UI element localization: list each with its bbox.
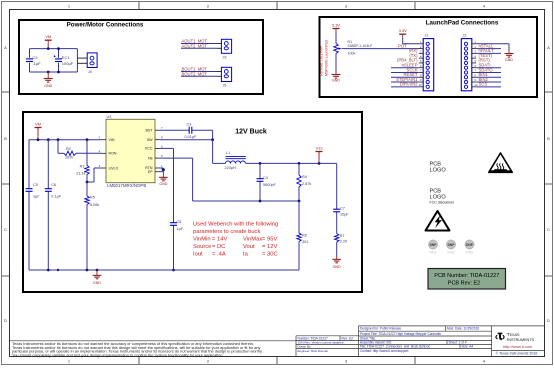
wire R1 to GND — [335, 54, 337, 72]
connector J5 — [221, 67, 231, 87]
op-amp U3 LM5017MRX/NOPB (buck regulator IC) — [106, 115, 155, 188]
svg-text:1µF: 1µF — [33, 194, 40, 198]
wire left vertical C2 branch — [29, 49, 31, 58]
title block outline — [10, 326, 545, 357]
svg-text:3.3V: 3.3V — [332, 22, 341, 27]
svg-text:VIN: VIN — [109, 138, 115, 142]
net AOUT2_MOT — [181, 43, 221, 48]
PCB LOGO text 2 — [430, 189, 447, 201]
svg-text:= .4A: = .4A — [212, 252, 226, 258]
wire J4 pin stubs — [77, 57, 87, 59]
net SDATI (J2 pin 6) — [476, 63, 501, 68]
fiducial FID2 DNP — [446, 240, 455, 255]
svg-text:ta: ta — [243, 252, 249, 258]
resistor R1 potentiometer — [334, 40, 373, 55]
svg-text:C8: C8 — [177, 220, 182, 224]
svg-text:C6: C6 — [51, 183, 56, 187]
svg-text:.1µF: .1µF — [33, 61, 42, 66]
svg-text:SCS: SCS — [479, 82, 488, 87]
svg-text:EXAS: EXAS — [510, 333, 520, 337]
net SCS (J2 pin 10) — [476, 82, 501, 87]
svg-text:UVLO: UVLO — [109, 166, 119, 170]
svg-text:D: D — [4, 318, 7, 323]
capacitor EC1 (polarized) — [54, 55, 74, 66]
capacitor C3 — [185, 123, 198, 139]
svg-text:Used Webench with the followin: Used Webench with the following — [193, 222, 278, 228]
ground GND U3 — [159, 172, 168, 186]
svg-text:FID2: FID2 — [448, 251, 455, 255]
net BIN1 (J2 pin 8) — [476, 72, 501, 77]
svg-text:U3: U3 — [107, 115, 112, 119]
PCB number green box — [428, 269, 506, 290]
capacitor C5 branch — [28, 140, 30, 189]
svg-text:5600pF: 5600pF — [263, 183, 277, 187]
J1 pin stubs and numbers — [419, 40, 424, 87]
svg-text:1µF: 1µF — [177, 227, 184, 231]
svg-text:R2: R2 — [66, 147, 71, 151]
svg-text:R4: R4 — [302, 175, 307, 179]
svg-text:L1: L1 — [226, 151, 230, 155]
power symbol VM buck — [35, 121, 42, 139]
svg-text:Designed for: Public Release: Designed for: Public Release — [360, 327, 401, 331]
svg-text:BOUT2_MOT: BOUT2_MOT — [182, 71, 208, 76]
svg-text:J4: J4 — [88, 70, 92, 74]
power 3.3V (pot branch) — [332, 22, 341, 32]
wire VM rail top — [30, 48, 78, 50]
fiducial FID3 DNP — [465, 240, 474, 255]
svg-text:8.06k: 8.06k — [90, 203, 99, 207]
svg-text:C4: C4 — [263, 176, 268, 180]
resistor R7 — [335, 234, 348, 244]
ground GND power/motor — [44, 72, 53, 88]
svg-text:B: B — [547, 136, 550, 141]
wire VCC to C8 — [160, 147, 174, 149]
connector J1 — [423, 33, 434, 90]
svg-text:VinMin: VinMin — [193, 237, 211, 243]
svg-text:FCC disclaimer: FCC disclaimer — [430, 201, 455, 205]
svg-text:C: C — [4, 227, 7, 232]
net (PB4_BLT) (J1 pin 5) — [397, 58, 418, 63]
wire EC1 branch — [58, 49, 60, 58]
svg-text:= 14V: = 14V — [212, 237, 227, 243]
hot surface warning triangle — [489, 153, 512, 172]
capacitor C6 branch — [47, 140, 49, 189]
svg-text:2.87k: 2.87k — [302, 182, 311, 186]
svg-text:R3: R3 — [80, 164, 85, 168]
wire output to C7/R7 — [336, 163, 338, 209]
svg-text:DNP: DNP — [430, 243, 438, 247]
svg-text:Source: Source — [193, 244, 211, 250]
svg-text:GND: GND — [159, 182, 167, 186]
svg-text:AOUT2_MOT: AOUT2_MOT — [182, 43, 208, 48]
12V Buck section box — [23, 112, 362, 292]
svg-text:V12: V12 — [315, 145, 323, 150]
disclaimer text — [12, 341, 263, 358]
svg-text:0.01µF: 0.01µF — [185, 135, 198, 139]
power symbol VM — [45, 34, 52, 49]
resistor R4 — [298, 163, 300, 175]
ground GND bottom rail — [93, 270, 102, 285]
capacitor C4 — [259, 163, 261, 178]
svg-text:C2: C2 — [33, 55, 39, 60]
svg-text:SW: SW — [147, 138, 153, 142]
fiducial FID1 DNP — [428, 240, 437, 255]
svg-text:Size: A4: Size: A4 — [462, 345, 474, 349]
connector J3 — [221, 39, 231, 59]
svg-text:DIR/AIN2: DIR/AIN2 — [400, 82, 418, 87]
svg-text:LaunchPad Connections: LaunchPad Connections — [426, 20, 499, 27]
net POT wire — [343, 48, 419, 50]
svg-text:© Texas Instruments 2016: © Texas Instruments 2016 — [496, 352, 538, 356]
net (TX) (J1 pin 4) — [409, 53, 418, 58]
svg-text:DNP: DNP — [448, 243, 456, 247]
svg-text:MSP430G LaunchPad: MSP430G LaunchPad — [325, 40, 329, 76]
svg-text:100k: 100k — [348, 52, 356, 56]
node EC1 top junction — [57, 47, 60, 50]
svg-text:GND: GND — [332, 79, 340, 83]
wire input top rail — [29, 139, 101, 141]
svg-text:A: A — [547, 45, 550, 50]
svg-text:J2: J2 — [463, 33, 467, 37]
wire right vertical to J4 — [76, 49, 78, 72]
net DIR/AIN2 (J1 pin 10) — [391, 82, 419, 87]
ground GND launchpad left — [332, 72, 341, 83]
svg-text:R6: R6 — [302, 233, 307, 237]
svg-text:A: A — [4, 45, 7, 50]
svg-text:= 30C: = 30C — [262, 252, 278, 258]
net STEP/AIN1 (J1 pin 9) — [391, 77, 419, 82]
wire 3.3V to J1 pin1 — [402, 38, 404, 44]
svg-text:Contact: http://www.ti.com/su: Contact: http://www.ti.com/support — [360, 349, 408, 353]
svg-text:VM: VM — [35, 121, 41, 126]
svg-text:EP: EP — [148, 170, 153, 174]
svg-text:C: C — [547, 227, 550, 232]
ground GND C7/R7 — [332, 242, 341, 269]
svg-text:= 95V: = 95V — [262, 237, 277, 243]
net nSLEEP (J1 pin 6) — [391, 63, 419, 68]
LaunchPad Connections section box — [320, 17, 538, 97]
svg-text:D: D — [547, 318, 550, 323]
node bottom junctions — [47, 71, 50, 74]
svg-text:GND: GND — [333, 265, 341, 269]
wire bottom ground rail — [29, 269, 299, 271]
svg-text:J3: J3 — [223, 56, 227, 60]
power symbol V12 — [315, 145, 323, 155]
net SDATO (J2 pin 7) — [476, 67, 501, 72]
svg-text:Vout: Vout — [243, 244, 255, 250]
capacitor C2 — [26, 55, 41, 66]
connector J2 — [461, 33, 472, 90]
ground GND (J2 pin1) — [505, 51, 514, 63]
capacitor C8 — [170, 220, 184, 231]
wire SW to L1 — [160, 139, 213, 141]
svg-text:LM5017MRX/NOPB: LM5017MRX/NOPB — [107, 183, 146, 188]
net SCLK (J1 pin 7) — [391, 67, 419, 72]
svg-text:3386P-1-104LF: 3386P-1-104LF — [348, 44, 374, 48]
svg-text:Power/Motor Connections: Power/Motor Connections — [67, 22, 144, 29]
wire UVLO to R3/R5 node — [94, 167, 101, 169]
svg-text:J1: J1 — [424, 33, 428, 37]
svg-text:C5: C5 — [33, 183, 38, 187]
svg-text:B: B — [4, 136, 7, 141]
J2 pin stubs and numbers — [472, 40, 478, 87]
svg-text:R5: R5 — [90, 196, 95, 200]
svg-text:C7: C7 — [340, 207, 345, 211]
svg-text:VinMax: VinMax — [243, 237, 262, 243]
power 3.3V (J1 pin1) — [399, 28, 408, 38]
note vertical red text — [320, 40, 329, 76]
svg-text:= DC: = DC — [212, 244, 225, 250]
svg-text:10µF: 10µF — [340, 213, 349, 217]
svg-text:Iout: Iout — [193, 252, 203, 258]
net BOUT2_MOT — [181, 71, 221, 76]
svg-text:BST: BST — [146, 128, 154, 132]
Power/Motor Connections section box — [19, 20, 263, 94]
svg-text:PCB Number: TIDA-01227: PCB Number: TIDA-01227 — [434, 273, 499, 279]
high voltage warning triangle — [426, 211, 450, 231]
net (TEST) (J2 pin 4) — [479, 53, 493, 58]
svg-text:Remove J101 from: Remove J101 from — [320, 46, 324, 76]
Texas Instruments logo — [495, 332, 537, 355]
inductor L1 220uH — [225, 151, 246, 170]
svg-text:FID1: FID1 — [430, 251, 437, 255]
capacitor C7 — [333, 207, 349, 217]
svg-text:0.1µF: 0.1µF — [51, 194, 61, 198]
svg-text:parameters to create buck: parameters to create buck — [193, 229, 260, 235]
svg-text:21.1k: 21.1k — [76, 172, 85, 176]
svg-text:EC1: EC1 — [62, 55, 71, 60]
net BIN2 (J2 pin 9) — [476, 77, 501, 82]
svg-text:220µH: 220µH — [225, 166, 237, 170]
svg-text:VM: VM — [45, 34, 51, 39]
title block fields — [298, 327, 480, 353]
svg-text:3.3V: 3.3V — [399, 28, 408, 33]
svg-text:2.20: 2.20 — [340, 240, 347, 244]
connector J4 — [87, 53, 97, 74]
net (RST) (J2 pin 5) — [479, 58, 491, 63]
wire bottom rail — [30, 71, 78, 73]
svg-text:R7: R7 — [340, 234, 345, 238]
svg-text:DNP: DNP — [466, 243, 474, 247]
svg-text:100µF: 100µF — [62, 61, 74, 66]
net AOUT1_MOT — [181, 39, 221, 44]
wire J2 pin1 to GND — [476, 43, 509, 45]
svg-text:RON: RON — [109, 152, 117, 156]
svg-text:301: 301 — [302, 240, 308, 244]
svg-text:FID3: FID3 — [466, 251, 473, 255]
node dots bottom rail — [47, 269, 50, 272]
net nFAULT (J2 pin 3) — [476, 48, 501, 53]
net (RX) (J1 pin 3) — [409, 48, 418, 53]
U3 pin stubs + numbers — [99, 126, 163, 172]
svg-text:GND: GND — [44, 84, 52, 88]
note Webench red text — [193, 222, 278, 258]
svg-text:http://www.ti.com: http://www.ti.com — [503, 344, 532, 349]
wire output rail — [246, 162, 337, 164]
wire RTN/EP join — [160, 167, 163, 169]
svg-text:GND: GND — [505, 58, 513, 62]
svg-text:Project Title: TIDA-01227 Hig: Project Title: TIDA-01227 High Voltage S… — [360, 332, 442, 336]
net RESET (J1 pin 8) — [391, 72, 419, 77]
net BOUT1_MOT — [181, 67, 221, 72]
svg-text:= 12V: = 12V — [262, 244, 277, 250]
PCB LOGO text 1 — [430, 162, 447, 174]
net nSTALL (J2 pin 2) — [476, 43, 501, 48]
svg-text:PCB Rev: E2: PCB Rev: E2 — [448, 281, 480, 287]
node dots on input rail — [37, 138, 40, 141]
svg-text:J5: J5 — [223, 84, 227, 88]
resistor R3 / R5 branch — [86, 140, 88, 166]
svg-text:GND: GND — [93, 281, 101, 285]
svg-text:C3: C3 — [187, 123, 192, 127]
wire FB feedback — [160, 157, 193, 159]
wire BST to C3 to SW node — [160, 129, 189, 131]
resistor R2 branch (RON) — [57, 140, 59, 154]
svg-text:287k: 287k — [65, 156, 73, 160]
node VM junction — [47, 47, 50, 50]
resistor R6 — [298, 201, 300, 233]
svg-text:VCC: VCC — [145, 147, 153, 151]
svg-text:NSTRUMENTS: NSTRUMENTS — [508, 338, 534, 342]
svg-text:You should completely validate: You should completely validate and test … — [12, 352, 224, 357]
svg-text:LOGO: LOGO — [430, 168, 447, 174]
wire 3.3V down to R1 — [335, 32, 337, 44]
svg-text:Engineer: Rick Duncan: Engineer: Rick Duncan — [298, 349, 329, 353]
svg-text:12V Buck: 12V Buck — [235, 129, 267, 136]
svg-text:FB: FB — [148, 156, 153, 160]
resistor R5 — [86, 182, 88, 196]
svg-text:Mod. Date: 11/29/2016: Mod. Date: 11/29/2016 — [447, 327, 479, 331]
